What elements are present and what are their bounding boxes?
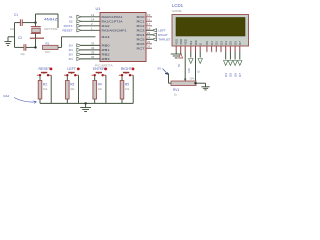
svg-text:24: 24 [147,35,151,39]
svg-text:RESET: RESET [62,29,72,33]
svg-text:ENTER: ENTER [93,67,105,71]
svg-text:RC2: RC2 [137,24,146,28]
svg-text:22p: 22p [10,27,15,31]
svg-text:RA4: RA4 [102,35,111,39]
svg-text:R4: R4 [98,82,102,86]
svg-text:5V: 5V [177,64,181,67]
svg-text:18: 18 [147,26,151,30]
svg-text:D4: D4 [224,73,228,77]
svg-text:1k: 1k [174,93,178,97]
svg-text:RA4: RA4 [4,94,10,98]
svg-text:CRYSTAL: CRYSTAL [44,27,58,31]
svg-text:D6: D6 [233,41,237,45]
svg-text:1N: 1N [69,44,73,48]
svg-text:33: 33 [91,42,95,46]
svg-text:D5: D5 [229,41,233,45]
svg-text:5V: 5V [158,67,162,71]
svg-text:RA3/AN3/CMP1: RA3/AN3/CMP1 [102,29,127,33]
svg-text:VEE: VEE [184,39,188,45]
svg-text:RC5: RC5 [137,38,146,42]
svg-text:RB1: RB1 [102,48,111,52]
svg-text:VDD: VDD [179,39,183,45]
svg-text:3N: 3N [69,53,73,57]
svg-text:2N: 2N [69,48,73,52]
svg-text:34: 34 [91,46,95,50]
svg-text:10k: 10k [98,87,103,91]
svg-text:RC4: RC4 [137,33,146,37]
svg-text:RA0/C1P0A1: RA0/C1P0A1 [102,15,123,19]
svg-text:10k: 10k [43,87,48,91]
svg-text:D0: D0 [205,41,209,45]
svg-text:LM016L: LM016L [172,9,183,13]
svg-text:R3: R3 [70,82,74,86]
svg-text:RA1/C1PTJA: RA1/C1PTJA [102,20,123,24]
svg-text:RC1: RC1 [137,20,146,24]
svg-text:RA2: RA2 [102,24,111,28]
svg-text:D7: D7 [238,73,242,77]
svg-text:2: 2 [91,22,93,26]
svg-text:RESET: RESET [38,67,51,71]
svg-text:R5: R5 [125,82,129,86]
svg-text:50%: 50% [190,78,196,81]
svg-text:35: 35 [91,51,95,55]
svg-text:D3: D3 [219,41,223,45]
svg-text:LEFT: LEFT [67,67,76,71]
svg-text:RIGHT: RIGHT [121,67,133,71]
svg-text:4N: 4N [69,57,73,61]
svg-text:15: 15 [147,13,151,17]
svg-text:C2: C2 [18,36,22,40]
svg-text:E: E [199,43,203,45]
svg-text:D1: D1 [210,41,214,45]
svg-text:D2: D2 [215,41,219,45]
svg-text:RB2: RB2 [102,53,111,57]
svg-text:E: E [196,70,200,72]
svg-text:X1: X1 [69,15,73,19]
svg-text:17: 17 [147,22,151,26]
svg-text:RS: RS [189,41,193,45]
svg-text:RB0: RB0 [102,44,111,48]
svg-text:R1: R1 [46,41,50,45]
svg-text:X2: X2 [69,20,73,24]
svg-text:RC3: RC3 [137,29,146,33]
svg-text:25: 25 [147,40,151,44]
svg-text:100: 100 [45,50,50,54]
svg-text:RC6: RC6 [137,42,146,46]
svg-text:10k: 10k [125,87,130,91]
svg-text:RW: RW [194,40,198,45]
svg-text:LCD1: LCD1 [172,3,184,8]
svg-text:36: 36 [91,55,95,59]
svg-text:LEFT: LEFT [158,29,166,33]
svg-text:THRUST: THRUST [158,38,170,42]
svg-text:13: 13 [91,13,95,17]
svg-text:RC7: RC7 [137,47,146,51]
svg-text:R2: R2 [43,82,47,86]
svg-text:VSS: VSS [175,39,179,45]
svg-text:RC0: RC0 [137,15,146,19]
svg-text:RB3: RB3 [102,57,111,61]
svg-text:10k: 10k [70,87,75,91]
svg-text:RIGHT: RIGHT [158,33,168,37]
svg-text:26: 26 [147,44,151,48]
svg-text:22p: 22p [21,52,26,56]
svg-text:14: 14 [91,17,95,21]
svg-text:U1: U1 [96,6,102,11]
svg-text:16: 16 [147,17,151,21]
svg-text:D4: D4 [224,41,228,45]
svg-text:C1: C1 [14,13,18,17]
svg-text:RS: RS [187,68,191,72]
svg-text:RX/TX: RX/TX [64,24,73,28]
svg-text:4MHZ: 4MHZ [44,18,58,22]
svg-text:1: 1 [91,26,93,30]
svg-text:D7: D7 [238,41,242,45]
svg-text:23: 23 [147,31,151,35]
svg-text:RV1: RV1 [173,88,179,92]
svg-text:D5: D5 [229,73,233,77]
svg-text:D6: D6 [233,73,237,77]
